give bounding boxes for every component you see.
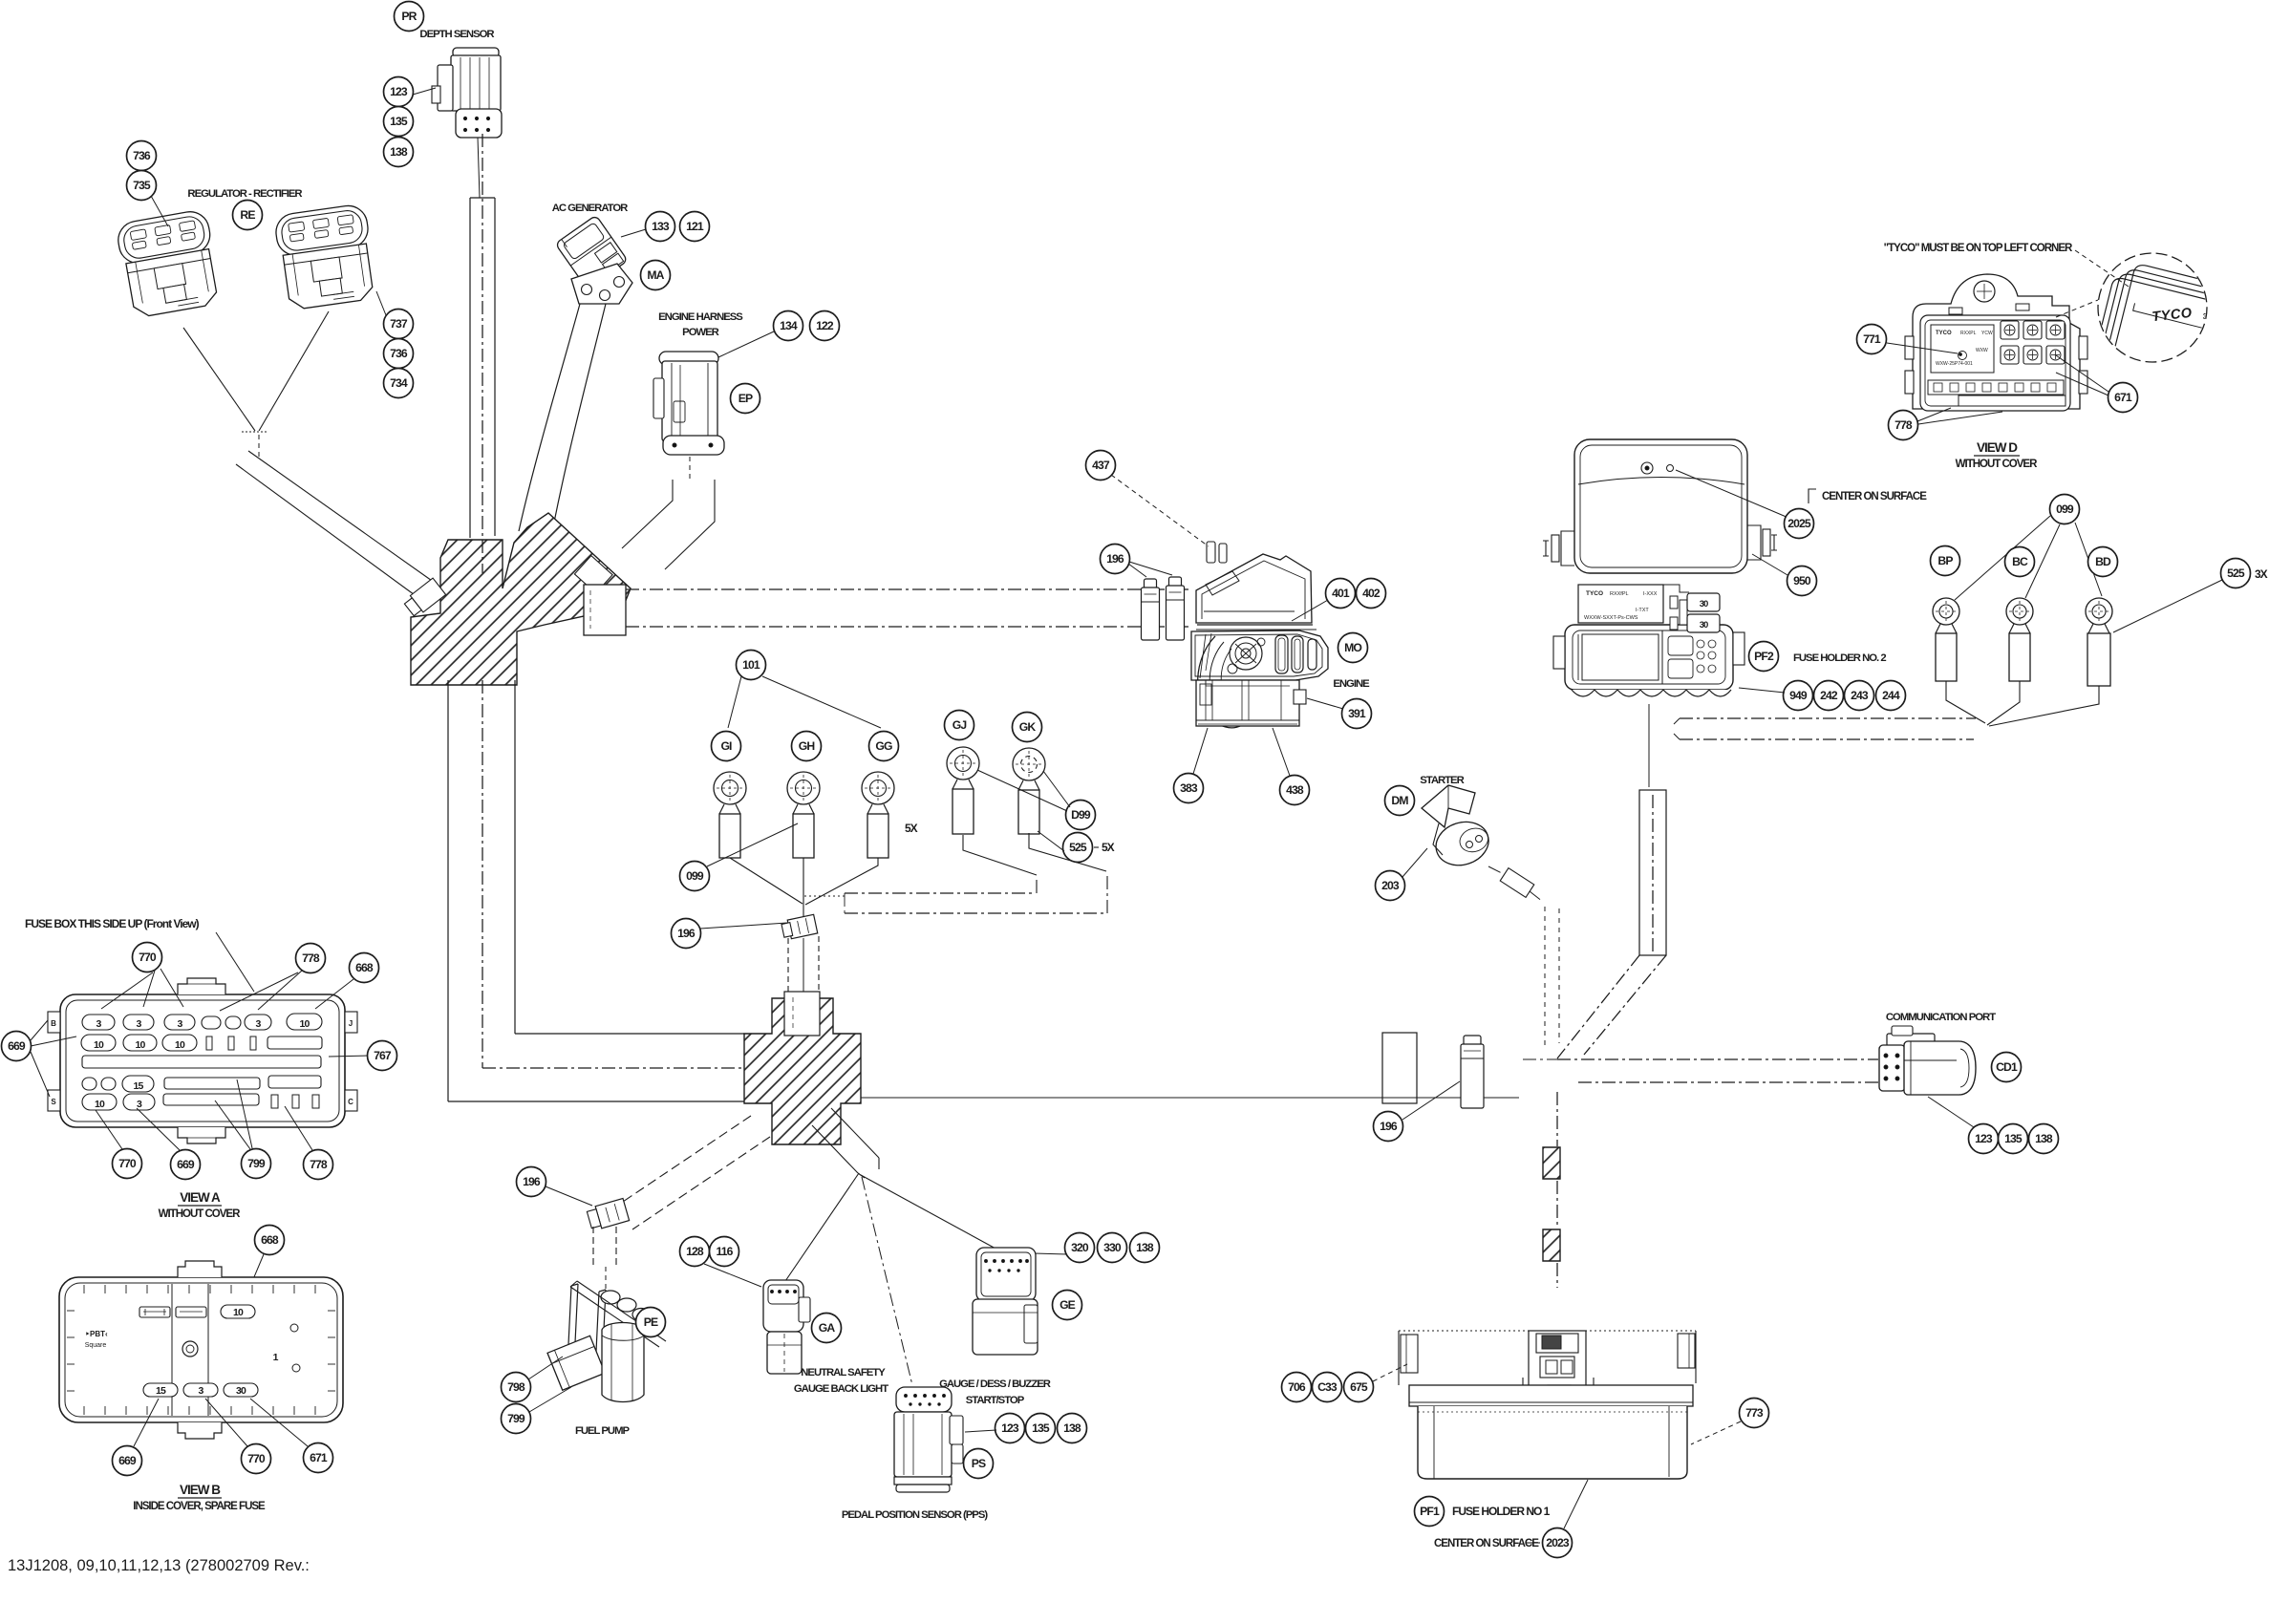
svg-text:401: 401 (1332, 587, 1350, 600)
svg-text:"TYCO" MUST BE ON TOP LEFT COR: "TYCO" MUST BE ON TOP LEFT CORNER (1884, 243, 2073, 254)
svg-text:330: 330 (1103, 1241, 1122, 1254)
svg-text:669: 669 (177, 1158, 195, 1171)
svg-text:203: 203 (1381, 879, 1400, 892)
svg-text:GA: GA (819, 1321, 836, 1335)
svg-text:C: C (348, 1098, 353, 1106)
svg-text:525: 525 (1069, 841, 1087, 854)
svg-text:123: 123 (1001, 1421, 1019, 1435)
svg-text:525: 525 (2227, 566, 2245, 580)
svg-text:GJ: GJ (953, 718, 967, 732)
svg-text:PF1: PF1 (1420, 1505, 1440, 1518)
svg-text:C33: C33 (1317, 1380, 1338, 1394)
svg-text:770: 770 (118, 1157, 137, 1170)
svg-text:GI: GI (720, 739, 732, 753)
svg-text:WXXW-SXXT-Ps-CWS: WXXW-SXXT-Ps-CWS (1584, 615, 1638, 621)
svg-text:123: 123 (390, 85, 408, 98)
svg-text:10: 10 (299, 1018, 310, 1030)
svg-text:NEUTRAL SAFETY: NEUTRAL SAFETY (801, 1367, 886, 1378)
svg-text:PS: PS (972, 1457, 986, 1470)
svg-text:391: 391 (1348, 707, 1366, 720)
svg-text:706: 706 (1288, 1380, 1306, 1394)
svg-text:798: 798 (507, 1380, 525, 1394)
svg-text:POWER: POWER (682, 327, 719, 338)
svg-text:135: 135 (390, 115, 408, 128)
svg-text:RXXfPL: RXXfPL (1610, 591, 1629, 597)
svg-text:PE: PE (644, 1315, 658, 1329)
svg-text:771: 771 (1863, 332, 1881, 346)
svg-text:13J1208, 09,10,11,12,13 (27800: 13J1208, 09,10,11,12,13 (278002709 Rev.: (8, 1557, 310, 1574)
svg-text:BP: BP (1937, 554, 1953, 567)
svg-text:10: 10 (233, 1307, 244, 1318)
svg-text:AC GENERATOR: AC GENERATOR (552, 203, 628, 214)
svg-text:ENGINE: ENGINE (1333, 678, 1370, 690)
svg-text:START/STOP: START/STOP (966, 1395, 1025, 1406)
svg-text:2025: 2025 (1787, 517, 1811, 530)
svg-text:15: 15 (156, 1385, 166, 1397)
svg-text:770: 770 (139, 951, 157, 964)
svg-text:773: 773 (1745, 1406, 1764, 1420)
svg-text:10: 10 (175, 1039, 185, 1051)
svg-text:WXW: WXW (1976, 348, 1988, 353)
svg-text:30: 30 (1700, 599, 1708, 609)
svg-text:671: 671 (310, 1451, 328, 1464)
svg-text:5X: 5X (905, 822, 918, 835)
svg-text:Square: Square (85, 1342, 107, 1349)
svg-text:320: 320 (1071, 1241, 1089, 1254)
svg-text:675: 675 (1350, 1380, 1368, 1394)
svg-text:737: 737 (390, 317, 408, 331)
svg-text:668: 668 (355, 961, 374, 974)
svg-text:767: 767 (374, 1049, 392, 1062)
svg-text:WXW-25P74-001: WXW-25P74-001 (1936, 361, 1973, 367)
svg-text:668: 668 (261, 1233, 279, 1247)
svg-text:138: 138 (1063, 1421, 1081, 1435)
svg-text:BC: BC (2012, 555, 2028, 568)
svg-text:DM: DM (1391, 794, 1408, 807)
svg-text:J: J (349, 1019, 353, 1028)
svg-text:734: 734 (390, 376, 408, 390)
svg-text:101: 101 (742, 658, 760, 672)
svg-text:VIEW B: VIEW B (180, 1483, 221, 1497)
svg-text:BD: BD (2095, 555, 2111, 568)
svg-text:5X: 5X (1102, 841, 1115, 854)
svg-text:243: 243 (1851, 689, 1869, 702)
svg-text:MA: MA (647, 268, 664, 282)
svg-text:122: 122 (816, 319, 834, 332)
svg-text:GE: GE (1060, 1298, 1076, 1312)
svg-text:I-XXX: I-XXX (1643, 591, 1658, 597)
svg-text:PF2: PF2 (1754, 650, 1774, 663)
svg-text:135: 135 (1032, 1421, 1050, 1435)
svg-text:2023: 2023 (1546, 1536, 1570, 1549)
svg-text:669: 669 (118, 1454, 137, 1467)
svg-text:VIEW D: VIEW D (1977, 440, 2018, 455)
svg-text:135: 135 (2004, 1132, 2023, 1145)
svg-text:10: 10 (94, 1039, 104, 1051)
svg-text:FUEL PUMP: FUEL PUMP (575, 1425, 631, 1437)
svg-text:ENGINE HARNESS: ENGINE HARNESS (658, 311, 743, 323)
svg-text:PEDAL POSITION SENSOR (PPS): PEDAL POSITION SENSOR (PPS) (842, 1509, 989, 1521)
svg-text:GG: GG (875, 739, 892, 753)
svg-text:196: 196 (523, 1175, 541, 1188)
svg-text:671: 671 (2114, 391, 2132, 404)
svg-text:GK: GK (1019, 720, 1037, 734)
svg-text:GAUGE / DESS / BUZZER: GAUGE / DESS / BUZZER (939, 1378, 1051, 1390)
svg-text:10: 10 (95, 1099, 105, 1110)
svg-text:383: 383 (1180, 781, 1198, 795)
svg-text:CENTER ON SURFACE: CENTER ON SURFACE (1822, 491, 1927, 502)
svg-text:778: 778 (310, 1158, 328, 1171)
svg-text:196: 196 (677, 927, 696, 940)
svg-text:736: 736 (133, 149, 151, 162)
svg-text:138: 138 (2035, 1132, 2053, 1145)
svg-text:TYCO: TYCO (1936, 331, 1952, 336)
svg-text:949: 949 (1789, 689, 1808, 702)
svg-text:134: 134 (780, 319, 798, 332)
svg-text:WITHOUT COVER: WITHOUT COVER (159, 1208, 241, 1220)
svg-text:402: 402 (1362, 587, 1381, 600)
svg-text:735: 735 (133, 179, 151, 192)
svg-text:770: 770 (247, 1452, 266, 1465)
svg-text:STARTER: STARTER (1420, 775, 1464, 786)
svg-text:778: 778 (1894, 418, 1913, 432)
svg-text:128: 128 (686, 1245, 704, 1258)
svg-text:778: 778 (302, 951, 320, 965)
svg-text:669: 669 (8, 1039, 26, 1053)
svg-text:121: 121 (686, 220, 704, 233)
svg-text:YCW: YCW (1981, 331, 1993, 336)
svg-text:‣PBT‹: ‣PBT‹ (85, 1330, 108, 1338)
svg-text:GH: GH (799, 739, 815, 753)
svg-text:950: 950 (1793, 574, 1811, 588)
svg-text:196: 196 (1106, 552, 1124, 566)
svg-text:D99: D99 (1071, 808, 1091, 822)
svg-text:138: 138 (390, 145, 408, 159)
svg-text:RE: RE (240, 208, 255, 222)
svg-text:438: 438 (1286, 783, 1304, 797)
svg-text:VIEW A: VIEW A (180, 1190, 221, 1205)
svg-text:TYCO: TYCO (1586, 590, 1603, 597)
svg-text:799: 799 (247, 1157, 266, 1170)
svg-text:242: 242 (1820, 689, 1838, 702)
svg-text:B: B (51, 1019, 56, 1028)
svg-text:30: 30 (1700, 620, 1708, 630)
svg-text:116: 116 (717, 1245, 734, 1258)
svg-text:437: 437 (1092, 459, 1110, 472)
svg-text:099: 099 (2056, 502, 2074, 516)
svg-text:10: 10 (135, 1039, 145, 1051)
svg-text:FUSE HOLDER NO 1: FUSE HOLDER NO 1 (1452, 1505, 1551, 1518)
svg-text:WITHOUT COVER: WITHOUT COVER (1956, 459, 2038, 470)
svg-text:099: 099 (686, 869, 704, 883)
svg-text:RXXPL: RXXPL (1960, 331, 1977, 336)
svg-text:GAUGE BACK LIGHT: GAUGE BACK LIGHT (794, 1383, 888, 1395)
svg-text:244: 244 (1882, 689, 1900, 702)
svg-text:COMMUNICATION PORT: COMMUNICATION PORT (1886, 1012, 1996, 1023)
svg-text:736: 736 (390, 347, 408, 360)
svg-text:I-TXT: I-TXT (1636, 608, 1649, 613)
svg-text:PR: PR (401, 10, 417, 23)
svg-text:15: 15 (133, 1080, 143, 1092)
svg-text:30: 30 (236, 1385, 246, 1397)
svg-text:CENTER ON SURFACE: CENTER ON SURFACE (1434, 1538, 1539, 1549)
svg-text:FUSE HOLDER NO. 2: FUSE HOLDER NO. 2 (1793, 652, 1886, 664)
svg-text:196: 196 (1380, 1120, 1398, 1133)
svg-text:EP: EP (738, 392, 753, 405)
svg-text:S: S (51, 1098, 56, 1106)
svg-text:MO: MO (1344, 641, 1361, 654)
svg-text:INSIDE COVER, SPARE FUSE: INSIDE COVER, SPARE FUSE (133, 1501, 266, 1512)
svg-text:CD1: CD1 (1996, 1060, 2018, 1074)
svg-text:123: 123 (1975, 1132, 1993, 1145)
svg-text:133: 133 (652, 220, 670, 233)
svg-text:FUSE BOX THIS SIDE UP (Front V: FUSE BOX THIS SIDE UP (Front View) (25, 917, 200, 930)
svg-text:138: 138 (1136, 1241, 1154, 1254)
svg-text:REGULATOR - RECTIFIER: REGULATOR - RECTIFIER (187, 188, 302, 200)
svg-text:3X: 3X (2255, 567, 2268, 581)
svg-text:DEPTH SENSOR: DEPTH SENSOR (419, 29, 494, 40)
svg-text:799: 799 (507, 1412, 525, 1425)
